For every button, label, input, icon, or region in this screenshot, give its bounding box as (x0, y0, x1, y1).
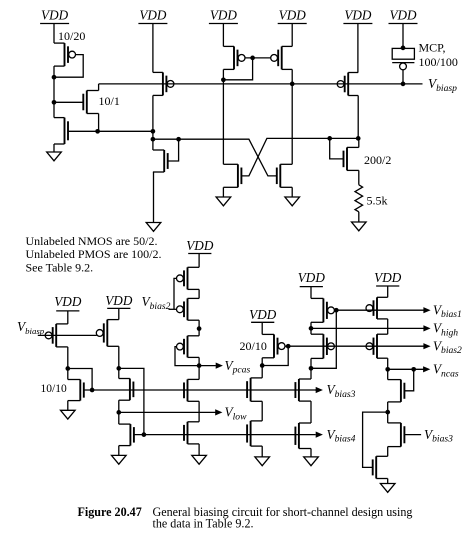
wire M4 drain down (152, 95, 154, 150)
caption figure number (78, 505, 142, 519)
wire BM6-BM7 series (198, 289, 200, 298)
wire M5 gate line to M6 (245, 57, 271, 59)
wire M8 drain column (222, 80, 224, 165)
wire Vbias4 line (134, 434, 316, 436)
transistor BK1 PMOS right upper (366, 297, 388, 319)
label 20/10 (240, 339, 267, 353)
transistor BM8 PMOS Vpcas diode (177, 336, 200, 358)
wire M1 drain down (53, 66, 55, 77)
wire node2 to Vbias4 line (119, 368, 144, 434)
wire Vbiasp input line (38, 334, 97, 336)
wire BR1 gate tap (404, 369, 413, 391)
transistor M5 PMOS col3 (223, 46, 245, 69)
node L3 junction (151, 137, 156, 142)
label Vpcas (225, 358, 251, 376)
label Vncas (433, 362, 459, 380)
ground BB2 (304, 457, 319, 466)
wire M2 drain to rail (98, 84, 100, 91)
capacitor MCP 100/100 (392, 48, 414, 84)
transistor M11 NMOS 200/2 (344, 147, 359, 170)
wire M5 drain down (222, 69, 224, 79)
node BM3 drain (116, 366, 121, 371)
wire Vncas line (388, 368, 427, 370)
VDD supply 3 (209, 8, 238, 47)
transistor M3 NMOS 50/2 (54, 118, 68, 144)
transistor M2 NMOS 10/1 (83, 91, 98, 114)
node Vpcas (197, 363, 202, 368)
wire BA1 source down (261, 401, 263, 421)
node tap on Vbias3 line (90, 388, 95, 393)
ground resistor (352, 222, 367, 231)
label Vbias3 right (424, 427, 453, 445)
svg-text:Unlabeled PMOS are 100/2.: Unlabeled PMOS are 100/2. (26, 247, 162, 261)
label Vpcas arrow (216, 363, 223, 369)
wire M2 gate lead (54, 101, 83, 103)
wire resistor to ground (358, 212, 360, 222)
wire M6 drain to rail (291, 69, 293, 84)
wire BM11 feedback to gate (262, 346, 288, 365)
transistor BM1 PMOS mirror A (45, 324, 68, 347)
node M11 gate tap (327, 136, 332, 141)
wire Vpcas line (199, 365, 216, 367)
wire BM1 drain down (67, 347, 69, 369)
wire Vbias1 line (334, 309, 427, 311)
wire BM2 drain up (67, 369, 69, 380)
transistor BM3 PMOS mirror B (96, 320, 119, 347)
transistor M4 PMOS col2 (153, 72, 174, 95)
VDD supply b2 (105, 293, 133, 320)
VDD supply b1 (54, 294, 82, 324)
wire Vbias1 feedback (311, 310, 336, 368)
label Vhigh arrow (423, 325, 430, 331)
label Vncas arrow (423, 366, 430, 372)
VDD supply b3 (186, 238, 214, 267)
wire BI1 drain down (310, 322, 312, 334)
transistor BM9 NMOS mid cascode (184, 379, 199, 401)
wire M3 source to ground (53, 144, 55, 152)
svg-text:VDD: VDD (298, 270, 326, 285)
node BM7 drain (197, 326, 202, 331)
node MCP on rail (401, 82, 406, 87)
node Vncas gate tap (411, 367, 416, 372)
svg-text:Unlabeled NMOS are 50/2.: Unlabeled NMOS are 50/2. (26, 234, 158, 248)
wire BR3 gate from BR1 source (363, 412, 388, 467)
label Vbias2 input (142, 294, 171, 312)
wire node1 to Vbias3 line (68, 369, 92, 391)
wire L4 right to left-gate (cross) (241, 138, 358, 176)
caption line 2 (153, 517, 254, 531)
wire BB2 source to ground (310, 449, 312, 457)
wire BM4 drain up (118, 368, 120, 378)
node M5 gate feedback (250, 56, 255, 61)
node M6 drain on rail (290, 82, 295, 87)
transistor BM11 PMOS 20/10 (262, 334, 285, 357)
node L1 junction (151, 129, 156, 134)
node BR1 source (385, 410, 390, 415)
svg-text:See Table 9.2.: See Table 9.2. (26, 260, 94, 274)
wire BR1 drain up (387, 369, 389, 379)
label 100/100 (419, 55, 458, 69)
wire BM5 drain up (118, 412, 120, 424)
node Vlow (116, 410, 121, 415)
ground M9 (285, 197, 300, 206)
wire M9 drain column (291, 84, 293, 164)
wire BR2 drain up (387, 412, 389, 423)
node Vbias1 tap (334, 308, 339, 313)
wire BR3 source to ground (387, 479, 389, 484)
node M7 drain (356, 136, 361, 141)
transistor BM10 NMOS mid bottom (184, 422, 199, 444)
wire BM7 drain down (198, 320, 200, 336)
svg-text:VDD: VDD (186, 238, 214, 253)
wire BM9 source down (198, 401, 200, 422)
label Vbias3 arrow (315, 387, 323, 393)
svg-text:10/20: 10/20 (58, 29, 85, 43)
transistor BM6 PMOS mid upper (177, 267, 200, 289)
transistor BR1 NMOS ncas diode (388, 380, 405, 402)
label 10/1 (99, 94, 120, 108)
wire M5 feedback to drain (223, 58, 252, 80)
label Vbias4 arrow (316, 432, 323, 438)
node 10/1 gate tap (52, 100, 57, 105)
transistor BB2 NMOS colB lower (295, 423, 311, 449)
transistor BM7 PMOS mid Vbias2 (177, 298, 200, 320)
label Vlow arrow (215, 409, 222, 415)
transistor BA1 NMOS colA upper (247, 378, 262, 401)
svg-text:VDD: VDD (389, 8, 417, 23)
wire BA2 source to ground (261, 446, 263, 457)
node Vhigh (309, 326, 314, 331)
transistor M1 PMOS 10/20 (54, 43, 76, 66)
transistor M8 NMOS cross-coupled left (223, 164, 241, 187)
caption line 1 (153, 505, 413, 519)
transistor BR2 NMOS Vbias3 input (388, 423, 405, 447)
wire BI2 drain down (310, 358, 312, 368)
node Vncas left (385, 367, 390, 372)
svg-text:10/1: 10/1 (99, 94, 120, 108)
transistor M7 PMOS col5 (337, 73, 358, 96)
wire BM8 gate feedback (175, 347, 199, 366)
wire Vbiasp rail (99, 83, 423, 85)
wire BB1 drain up (310, 368, 312, 379)
node BM11 drain (260, 363, 265, 368)
wire BM8 drain down (198, 357, 200, 365)
wire M8 source to ground (222, 187, 224, 197)
svg-text:the data in Table 9.2.: the data in Table 9.2. (153, 517, 254, 531)
svg-text:VDD: VDD (54, 294, 82, 309)
wire Vbias2 input line (169, 308, 177, 310)
wire M3 gate line L1 (68, 130, 153, 132)
transistor BM4 NMOS col2 upper (119, 379, 134, 401)
svg-text:5.5k: 5.5k (367, 194, 388, 208)
svg-text:MCP,: MCP, (419, 41, 446, 55)
wire BM10 source to ground (198, 444, 200, 456)
svg-text:VDD: VDD (374, 270, 402, 285)
wire BM4 source down (118, 400, 120, 412)
VDD supply 5 (343, 8, 372, 73)
transistor BA2 NMOS colA lower (247, 421, 262, 446)
svg-text:VDD: VDD (105, 293, 133, 308)
wire M2 source down (98, 114, 100, 132)
label Vbiasp output (428, 76, 457, 94)
resistor 5.5k (355, 185, 363, 212)
ground BM10 (192, 455, 207, 464)
label Vhigh (433, 321, 458, 339)
svg-text:VDD: VDD (210, 8, 238, 23)
VDD supply 4 (278, 8, 307, 47)
VDD supply 2 (138, 8, 167, 73)
wire M7 drain down (357, 96, 359, 139)
wire Vbias3 line (84, 389, 316, 391)
label Vbias4 (327, 427, 356, 445)
VDD supply b4 (249, 307, 277, 335)
wire BR2 gate lead (404, 434, 421, 436)
ground M10 (146, 223, 161, 232)
transistor BR3 NMOS bottom right (373, 456, 388, 478)
wire M11 gate tap (330, 138, 344, 159)
label 10/10 (41, 383, 67, 395)
wire BK1 drain down (387, 319, 389, 334)
wire M11 source to resistor (358, 170, 360, 184)
wire BM6 BM7 gate tie (174, 278, 177, 309)
transistor M9 NMOS cross-coupled right (277, 164, 292, 187)
wire BA1 drain up (261, 366, 263, 378)
wire M11 drain up (358, 138, 360, 147)
wire M1 gate to drain (diode) (54, 55, 83, 78)
node BI2 drain (309, 366, 314, 371)
label Vbias1 arrow (423, 307, 430, 313)
svg-text:VDD: VDD (139, 8, 167, 23)
node M1 drain (52, 75, 57, 80)
wire BM2 source to ground (67, 401, 69, 411)
svg-text:200/2: 200/2 (364, 153, 391, 167)
ground M8 (216, 197, 231, 206)
wire M10 source to ground (153, 172, 155, 223)
label 10/20 (58, 29, 85, 43)
transistor BI1 PMOS Vbias1 (311, 298, 334, 322)
VDD supply 1 (40, 8, 69, 44)
ground BM2 (61, 410, 76, 419)
transistor BB1 NMOS colB upper (295, 379, 311, 401)
node M5 drain (221, 77, 226, 82)
label Vlow (225, 405, 248, 423)
svg-text:VDD: VDD (279, 8, 307, 23)
transistor BM2 NMOS 10/10 (68, 380, 84, 401)
VDD supply 6 (389, 8, 418, 48)
wire BM3 drain down (118, 346, 120, 368)
wire BM5 source to ground (118, 446, 120, 456)
svg-text:VDD: VDD (249, 307, 277, 322)
wire BM11 drain down (261, 358, 263, 366)
node M2 source junction (95, 129, 100, 134)
ground M3 (47, 152, 62, 161)
label Vbias2 (433, 338, 462, 356)
label MCP (419, 41, 446, 55)
note text line 1 (26, 234, 158, 248)
ground BM5 (112, 455, 127, 464)
wire BB1 source down (310, 401, 312, 423)
wire BR1 source down (387, 402, 389, 412)
node tap on Vbias4 line (142, 432, 147, 437)
ground BA2 (255, 457, 270, 466)
wire BR3 drain up (387, 447, 389, 457)
VDD supply b6 (374, 270, 402, 298)
label 200/2 (364, 153, 391, 167)
svg-text:20/10: 20/10 (240, 339, 267, 353)
transistor BM5 NMOS col2 lower (119, 424, 134, 446)
label 5.5k (367, 194, 388, 208)
node MCP top (401, 46, 406, 51)
ground BR3 (380, 484, 395, 493)
wire L3 left to right-gate (cross) (153, 139, 277, 176)
note text line 2 (26, 247, 162, 261)
wire Vlow line (119, 411, 216, 413)
label Vbias1 (433, 302, 462, 320)
wire Vbias2 line (285, 345, 427, 347)
label Vbias2 arrow (423, 343, 430, 349)
node BM1 drain (65, 366, 70, 371)
svg-text:100/100: 100/100 (419, 55, 458, 69)
transistor BK2 PMOS right cascode (366, 334, 388, 358)
wire M9 source to ground (291, 187, 293, 197)
svg-text:VDD: VDD (41, 8, 69, 23)
svg-text:Figure 20.47: Figure 20.47 (78, 505, 142, 519)
note text line 3 (26, 260, 94, 274)
wire BK2 drain down (387, 358, 389, 369)
wire M10 gate tap (168, 139, 179, 161)
transistor M6 PMOS col4 (271, 46, 293, 69)
svg-text:10/10: 10/10 (41, 383, 67, 395)
label Vbiasp input (17, 319, 45, 336)
transistor M10 NMOS below col2 (153, 150, 168, 172)
transistor BI2 PMOS Vhigh cascode (311, 334, 334, 358)
wire left column down (53, 77, 55, 117)
wire Vhigh line (311, 327, 427, 329)
svg-text:VDD: VDD (344, 8, 372, 23)
wire BM9 drain up (198, 366, 200, 380)
label Vbias3 (327, 382, 356, 400)
VDD supply b5 (298, 270, 326, 299)
node M10 gate tap (176, 137, 181, 142)
node BM11 gate on Vbias2 line (286, 344, 291, 349)
